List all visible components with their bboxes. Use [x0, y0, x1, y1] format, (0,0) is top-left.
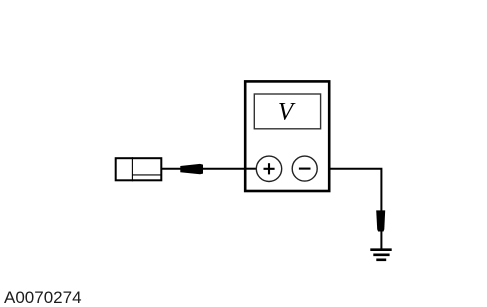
- connector inner horizontal line: [132, 174, 161, 176]
- wire from connector to voltmeter: [162, 168, 245, 170]
- wire stub from voltmeter left edge to plus terminal: [246, 168, 257, 170]
- probe tip on ground wire: [376, 210, 385, 231]
- wire from voltmeter minus terminal to ground drop: [317, 169, 381, 249]
- connector divider: [131, 157, 133, 181]
- ground symbol: [370, 250, 391, 260]
- figure number label A0070274: [4, 288, 82, 307]
- plus sign: [264, 163, 275, 174]
- minus sign: [299, 168, 311, 170]
- plus terminal circle: [256, 156, 281, 181]
- minus terminal circle: [292, 156, 317, 181]
- voltmeter U1 outer box: [245, 81, 329, 191]
- voltmeter display window: [254, 94, 320, 129]
- probe tip on left wire: [180, 164, 203, 174]
- connector C1: [116, 158, 162, 180]
